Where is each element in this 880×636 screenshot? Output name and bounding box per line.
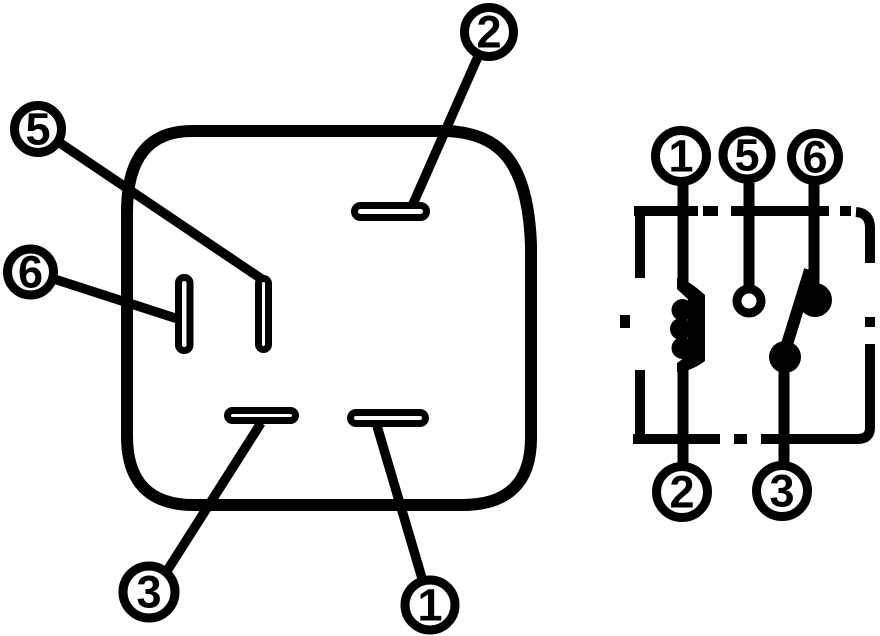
- svg-text:6: 6: [802, 132, 827, 183]
- svg-text:2: 2: [669, 467, 694, 518]
- svg-text:2: 2: [476, 7, 501, 58]
- svg-text:6: 6: [18, 247, 43, 298]
- svg-text:5: 5: [734, 130, 759, 181]
- svg-text:1: 1: [668, 131, 693, 182]
- svg-text:5: 5: [25, 104, 50, 155]
- svg-text:1: 1: [417, 580, 442, 631]
- svg-text:3: 3: [136, 567, 161, 618]
- svg-text:3: 3: [769, 466, 794, 517]
